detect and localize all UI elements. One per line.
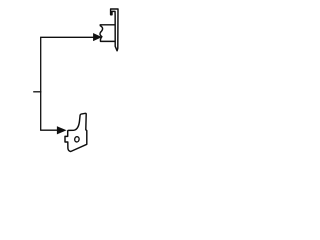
part: top clip blade with U-hook <box>111 9 118 51</box>
part: top clip side plate <box>100 25 116 42</box>
arrowhead top <box>93 34 101 41</box>
part: bottom bracket with hole <box>65 113 87 151</box>
wire top horizontal leader <box>40 36 94 38</box>
tick mark on vertical line <box>33 91 41 93</box>
hole in bottom bracket <box>74 136 79 142</box>
wire bottom horizontal leader <box>40 129 58 131</box>
arrowhead bottom <box>57 127 66 134</box>
wire vertical callout line <box>40 37 42 130</box>
